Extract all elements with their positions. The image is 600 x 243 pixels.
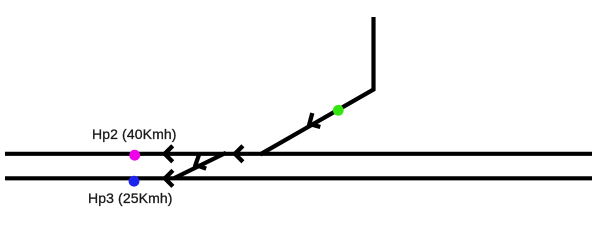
arrow on top line right — [235, 146, 243, 162]
arrow on crossover — [196, 154, 207, 168]
node green signal dot — [333, 105, 344, 116]
wire branch from top-right (vertical + diagonal) — [260, 17, 374, 155]
arrow on top line left — [165, 146, 173, 162]
label Hp3 (25Kmh) — [88, 191, 173, 205]
wire siding track bottom — [5, 176, 592, 180]
arrow on bottom line — [165, 170, 173, 186]
node Hp2 magenta signal dot — [129, 150, 140, 161]
node Hp3 blue signal dot — [129, 176, 140, 187]
wire crossover between tracks — [174, 153, 226, 179]
label Hp2 (40Kmh) — [92, 127, 177, 141]
arrow on diagonal — [309, 113, 320, 127]
wire main track top — [5, 152, 592, 156]
